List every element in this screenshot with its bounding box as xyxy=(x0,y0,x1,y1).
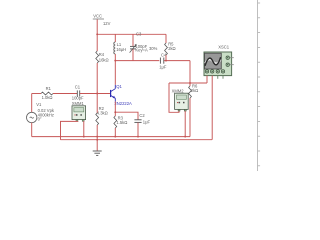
wire base node to R2 xyxy=(96,94,98,114)
svg-text:2N2222A: 2N2222A xyxy=(114,101,132,106)
wire emitter branch to C2 xyxy=(115,112,138,119)
node collector tank junction xyxy=(114,60,116,62)
wire rail A xyxy=(32,136,190,138)
node emitter branch xyxy=(114,111,116,113)
wire rail B xyxy=(61,139,213,141)
wire collector xyxy=(114,61,116,85)
wire left vertical upper (VCC to R4) xyxy=(96,34,98,51)
resistor R1 xyxy=(41,86,53,100)
capacitor C4 xyxy=(159,53,167,70)
wire R1 to C1 xyxy=(53,93,77,95)
svg-text:16μH: 16μH xyxy=(116,47,126,52)
svg-text:1.0kΩ: 1.0kΩ xyxy=(42,95,53,100)
transistor Q1 2N2222A xyxy=(111,85,116,102)
wire VCC stub xyxy=(96,20,98,35)
svg-text:XMM2: XMM2 xyxy=(172,88,185,93)
svg-text:1.5kΩ: 1.5kΩ xyxy=(116,120,127,125)
node junction VCC rail xyxy=(96,33,98,35)
node XMM1 minus on rail A xyxy=(83,136,85,138)
svg-text:R4: R4 xyxy=(99,52,105,57)
wire C2 to rail A xyxy=(137,123,139,137)
svg-text:12V: 12V xyxy=(103,21,111,26)
wire V1 bottom xyxy=(31,123,33,137)
svg-text:4.3kΩ: 4.3kΩ xyxy=(97,111,108,116)
node rail B crossing xyxy=(96,139,98,141)
svg-text:V1: V1 xyxy=(36,102,42,107)
svg-text:VCC: VCC xyxy=(93,13,102,18)
wire C1 to base xyxy=(80,93,110,95)
wire scope channel A xyxy=(206,76,208,83)
svg-text:1μF: 1μF xyxy=(159,64,167,69)
svg-text:2kΩ: 2kΩ xyxy=(168,46,175,51)
inductor L1 xyxy=(114,34,126,60)
node base divider junction xyxy=(96,93,98,95)
capacitor C1 xyxy=(72,84,84,100)
svg-text:C3: C3 xyxy=(136,31,142,36)
svg-text:C2: C2 xyxy=(139,113,145,118)
wire R4 to base node xyxy=(96,63,98,94)
svg-text:0°: 0° xyxy=(38,117,42,122)
node rail A crossing xyxy=(96,136,98,138)
wire output horizontal xyxy=(169,82,207,84)
sheet border ruler xyxy=(258,0,261,171)
wire output down xyxy=(189,61,191,83)
multimeter XMM2 xyxy=(172,88,189,111)
svg-text:C1: C1 xyxy=(75,84,81,89)
resistor R3 xyxy=(114,116,127,137)
svg-text:Q1: Q1 xyxy=(116,84,122,89)
resistor R5 xyxy=(165,34,176,60)
node XMM2 minus rail A xyxy=(184,136,186,138)
wire top rail xyxy=(97,33,166,35)
wire XMM1 minus pin xyxy=(83,121,85,137)
wire scope ground xyxy=(211,76,213,140)
svg-text:16kΩ: 16kΩ xyxy=(99,58,109,63)
variable capacitor C3 xyxy=(130,31,158,60)
VCC power symbol xyxy=(93,13,104,19)
resistor R2 xyxy=(96,106,108,125)
multimeter XMM1 xyxy=(72,101,86,121)
svg-text:XSC1: XSC1 xyxy=(218,45,230,50)
wire V1 top xyxy=(31,94,33,113)
svg-text:Key=A: Key=A xyxy=(135,48,148,53)
wire R2 to ground rails xyxy=(96,125,98,151)
wire tank bottom rail xyxy=(115,60,159,62)
svg-text:100pF: 100pF xyxy=(72,96,84,101)
node R3 rail A xyxy=(114,136,116,138)
svg-text:2kΩ: 2kΩ xyxy=(191,88,198,93)
resistor R4 xyxy=(96,51,109,63)
wire emitter down xyxy=(114,102,116,117)
svg-text:1μF: 1μF xyxy=(143,120,151,125)
oscilloscope XSC1 xyxy=(204,45,234,79)
ground xyxy=(93,151,102,155)
node output R6 junction xyxy=(189,82,191,84)
svg-text:R1: R1 xyxy=(46,86,52,91)
resistor R6 xyxy=(189,83,199,137)
wire XMM1 plus pin xyxy=(61,121,78,140)
capacitor C2 xyxy=(134,113,150,125)
wire C4 to output xyxy=(164,60,190,62)
wire XMM2 plus pin xyxy=(169,83,179,112)
source V1 xyxy=(27,102,55,123)
svg-text:30%: 30% xyxy=(149,46,158,51)
node C2 rail A xyxy=(137,136,139,138)
node R5 output junction xyxy=(165,60,167,62)
wire V1 to R1 xyxy=(32,93,41,95)
wire XMM2 minus pin xyxy=(184,111,186,137)
